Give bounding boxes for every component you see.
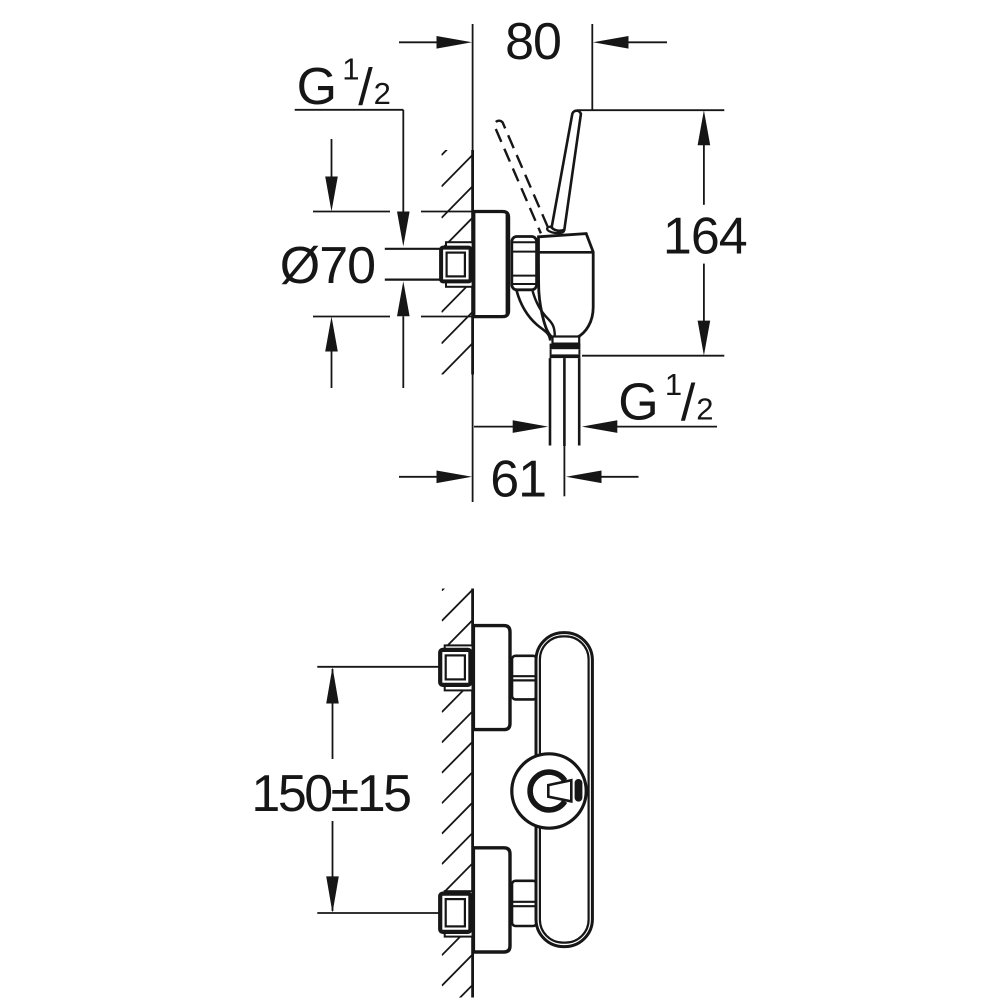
wall hatching (front view)	[442, 560, 472, 1000]
mixer body (side view)	[538, 234, 593, 342]
lever foot	[547, 225, 565, 234]
dimension Ø70 extension lines	[313, 211, 390, 213]
inlet pipe (side view)	[385, 248, 441, 250]
union square nut (side view)	[441, 248, 471, 282]
body outlet curve inner	[533, 291, 555, 337]
hose centre extension line	[563, 446, 565, 496]
svg-text:/: /	[358, 58, 373, 116]
svg-text:G: G	[618, 374, 658, 432]
label G 1/2 (top) leader	[295, 109, 404, 111]
dimension 150 extension line (top) / supply stub	[317, 666, 440, 668]
union wall flange top (front view)	[445, 645, 473, 690]
svg-text:Ø70: Ø70	[280, 237, 375, 295]
union wall flange (side view)	[446, 242, 473, 287]
dimension G1/2 (hose thread) arrows	[474, 426, 514, 428]
dimension 150 extension line (bottom) / supply stub	[317, 912, 440, 914]
mixer body capsule inner line	[540, 636, 589, 942]
svg-text:61: 61	[490, 450, 546, 508]
knob outer circle	[512, 754, 586, 828]
dimension Ø70: arrows	[331, 139, 333, 178]
hex adapter bottom (front view)	[512, 881, 537, 926]
dimension 61: arrows and text	[399, 476, 438, 478]
lever (alternate position, dashed)	[494, 121, 549, 234]
svg-text:2: 2	[696, 392, 713, 427]
shower hose	[549, 358, 552, 445]
wall hatching (side view)	[442, 124, 473, 406]
knob grip cap	[575, 779, 583, 802]
mixer body capsule outer (front view)	[536, 633, 592, 947]
union wall flange bottom (front view)	[445, 891, 473, 936]
union square nut top (front view)	[440, 650, 470, 685]
dimension 164: line and arrows	[698, 110, 711, 145]
svg-text:2: 2	[374, 76, 391, 111]
knob ring (C shape)	[530, 772, 565, 810]
lever (solid)	[552, 111, 581, 231]
dimension 150±15: line and arrows	[326, 667, 339, 704]
escutcheon (side view)	[474, 212, 509, 317]
wall face line (front view)	[471, 589, 474, 998]
dimension 80: right extension line	[591, 24, 593, 110]
mixer union nut (side view)	[512, 237, 537, 290]
hose outlet collar	[553, 337, 580, 344]
hex adapter top (front view)	[512, 656, 537, 700]
svg-text:1: 1	[342, 51, 359, 86]
dimension 164: extension lines	[577, 109, 724, 111]
body seam	[539, 251, 594, 254]
knob grip cone	[548, 780, 571, 801]
union square nut bottom (front view)	[440, 894, 470, 932]
svg-text:/: /	[681, 374, 696, 432]
svg-text:1: 1	[665, 367, 682, 402]
wall face line (side view)	[472, 24, 474, 150]
G1/2 lower arrow (pipe bottom)	[397, 281, 410, 316]
escutcheon bottom (front view)	[473, 848, 510, 952]
svg-text:150±15: 150±15	[251, 765, 410, 823]
dimension 80: arrows	[399, 41, 438, 43]
body outlet curve outer	[517, 291, 551, 341]
svg-text:164: 164	[663, 208, 747, 266]
svg-text:80: 80	[505, 13, 561, 71]
escutcheon top (front view)	[473, 626, 510, 730]
svg-text:G: G	[297, 58, 337, 116]
